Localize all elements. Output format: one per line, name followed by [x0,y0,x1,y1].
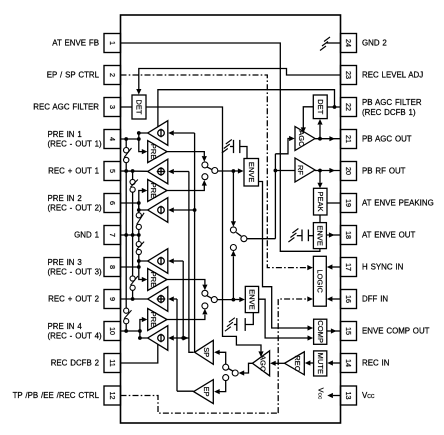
wire node B to ENVE3 input [233,299,239,301]
svg-text:19: 19 [344,199,353,207]
head switch 1 contact bottom [202,174,208,180]
pin 10 box [104,322,121,341]
arrow COMP out to pin 15 [331,328,337,333]
arrow into ENVE3 input [239,297,245,302]
wire PRE2 output to head switch [167,186,204,191]
pin 6 box [104,194,121,213]
ground at C2 [292,229,298,234]
wire head sw1 pole to ENVE input [218,170,238,172]
svg-text:4: 4 [108,137,117,141]
svg-text:2: 2 [108,73,117,77]
wire C1 to ground [230,146,234,148]
rail REC bus x=194.6 [194,133,196,352]
arrow into A1 input [168,130,174,135]
arrow head sw1 from PRE2 [202,180,207,186]
arrow head sw2 from PRE4 [202,309,207,315]
pin 13 box [341,386,357,405]
svg-text:5: 5 [108,169,117,173]
wire RF out to pin 20 [315,170,341,172]
arrow EP/SP bus into REC bus [183,335,189,340]
op-amp A3 (REC-OUT 2, pin 6) [148,198,168,223]
amp AGC (record) [252,351,269,376]
wire EP output to bus [177,390,194,392]
arrow into SP input [214,350,220,355]
rail ground x=126.2 lower [125,324,127,331]
wire pin 23 REC LEVEL ADJ to DET [139,69,341,90]
wire A1 apex riser to PRE1 input [139,133,148,152]
junction pin8 row [137,265,141,269]
arrow pin 14 into MUTE [327,360,333,365]
arrow into ENVE1 input [238,168,244,173]
EP/SP switch contact bottom [223,375,229,381]
arrow into A2 input [168,169,174,174]
switch blade pin8-pin9 [131,276,138,285]
wire pin 22 node to DET right [327,106,334,108]
switch circles pin6-gnd [136,213,141,218]
svg-text:ENVE: ENVE [248,289,257,310]
rail node-B up to PB switch [232,256,234,299]
wire pin 3 REC AGC FILTER to DET [121,106,133,108]
op-amp A1 (REC-OUT 1, pin 4) [148,121,168,146]
wire pin 17 to LOGIC [332,266,341,268]
capacitor C1 plates [239,140,241,153]
arrow MUTE into REC amp [305,360,311,365]
IC outline [121,15,341,423]
switch blade gnd-pin8 [137,242,144,250]
svg-text:AT ENVE FB: AT ENVE FB [52,39,99,48]
junction pin22 node [333,105,337,109]
svg-text:PB AGC FILTER: PB AGC FILTER [362,98,422,107]
wire pin 12 TP/PB/EE/REC CTRL [121,396,279,414]
pin 23 box [341,66,357,85]
junction PB rail / RF [274,169,278,173]
switch circles pin9-pin10 [124,308,129,313]
pin 7 box [104,226,121,245]
arrow into A6 input [168,335,174,340]
wire pin 8 row [121,266,139,268]
wire pin 12 ctrl riser to LOGIC lower [278,299,307,413]
switch blade pin9-pin10 [124,310,131,319]
svg-text:PRE: PRE [149,144,158,160]
switch circles gnd-pin8 [136,242,141,247]
svg-text:H SYNC IN: H SYNC IN [362,263,404,272]
rail PB signal x=275.4 [274,154,276,239]
svg-text:PB AGC OUT: PB AGC OUT [362,135,412,144]
capacitor C2 plates [301,230,303,242]
svg-text:ENVE: ENVE [316,225,325,246]
head switch 2 contact top [202,290,208,296]
svg-text:REC + OUT 2: REC + OUT 2 [48,295,99,304]
svg-text:(REC DCFB 1): (REC DCFB 1) [362,108,416,117]
wire C3 to ground [234,324,237,326]
rail ground x=126.2 upper [125,139,127,148]
junction pin10 row b [138,329,142,333]
arrow into DET top [136,89,141,95]
wire DET ctl to AGC top [303,107,313,128]
pin 9 box [104,290,121,309]
switch circles pin4-pin5 [124,148,129,153]
svg-text:(REC - OUT 2): (REC - OUT 2) [48,204,102,213]
wire pin 16 to LOGIC [332,298,341,300]
amp REC [285,352,305,375]
junction RF out [318,169,322,173]
svg-text:GND 2: GND 2 [362,39,387,48]
wire AGC out to pin 21 [315,138,341,140]
svg-text:PRE IN 3: PRE IN 3 [48,258,83,267]
svg-text:VCC: VCC [362,391,375,400]
pin 17 box [341,258,357,277]
pin 2 box [104,66,121,85]
svg-text:17: 17 [344,263,353,271]
block LOGIC [313,256,326,306]
amp EP [194,380,214,404]
svg-text:24: 24 [344,39,353,47]
wire RF out riser to PEAK [319,171,321,183]
wire pin 22 node to DET / feedback line [158,90,341,127]
pin 8 box [104,258,121,277]
wire SP input [220,352,226,364]
rail x=132.6 seg3 [132,290,134,299]
junction gnd row c [137,233,141,237]
arrow into PEAK top [317,183,322,189]
block ENVE (rec envelope B) [245,286,258,312]
wire COMP out to pin 15 [327,330,341,332]
switch circles pin8-pin9 [130,276,135,281]
preamp PRE 1 [148,141,167,163]
detector block DET (pb agc) [313,95,327,119]
switch circles pin5-pin6 [130,179,135,184]
junction pin5 row a [124,169,128,173]
block ENVE (AT envelope) [313,223,326,249]
wire REC amp to AGC2 [276,362,285,364]
svg-text:RF: RF [296,165,305,175]
arrow ctrl into LOGIC lower [307,296,313,301]
svg-text:7: 7 [108,233,117,237]
junction A4 apex [137,259,141,263]
wire A6 input row [174,337,189,339]
wire PB rail to AGC input [275,139,289,154]
wire PRE1 output to head switch [167,152,204,157]
wire ENVE1 top to capacitor [240,147,247,159]
arrow AGC riser into DET bottom [317,119,322,125]
arrow into PRE4 input [142,317,148,322]
svg-text:3: 3 [108,105,117,109]
amp RF [295,158,315,182]
wire pin 11 REC DCFB 2 to A6 lower edge [121,344,158,363]
pin 11 box [104,354,121,373]
svg-text:22: 22 [344,103,353,111]
rail x=138.8 seg to gnd row [138,230,140,236]
rail x=138.8 seg gnd-pin8 [138,235,140,242]
arrow into PRE2 input [142,188,148,193]
svg-text:MUTE: MUTE [316,353,325,374]
rail node-A down to PB switch [232,171,234,221]
svg-text:DET: DET [316,99,325,114]
svg-text:PRE: PRE [149,183,158,199]
svg-text:10: 10 [108,327,117,335]
wire MUTE to REC amp [310,362,314,364]
wire C2 to ground [297,235,302,237]
wire AGC out riser to DET [319,125,321,139]
EP/SP switch contact top [223,364,229,370]
wire PEAK to ENVE2 [319,215,321,223]
wire pin 9 row to A5 apex [121,298,148,300]
svg-text:TP /PB /EE /REC CTRL: TP /PB /EE /REC CTRL [13,391,100,400]
svg-text:9: 9 [108,297,117,301]
arrow into PRE1 input [142,149,148,154]
svg-text:11: 11 [108,359,117,366]
head switch 1 pole [212,168,218,174]
arrow head sw1 from PRE1 [202,156,207,162]
svg-text:20: 20 [344,167,353,175]
wire A1 input [174,132,195,134]
wire A4 input [174,260,183,262]
pin 12 box [104,386,121,405]
pin 3 box [104,98,121,117]
wire A6 apex riser to PRE4 input [140,320,148,339]
svg-text:DET: DET [135,99,144,114]
op-amp A6 (REC-OUT 4, pin 10) [148,326,168,351]
svg-text:PRE IN 2: PRE IN 2 [48,194,82,203]
arrow PB sw from node A [231,221,236,227]
preamp PRE 3 [148,269,167,291]
svg-text:AGC: AGC [297,130,306,147]
pin 14 box [341,354,357,373]
head switch 1 contact top [202,162,208,168]
svg-text:ENVE COMP OUT: ENVE COMP OUT [362,327,430,336]
PB switch contact top [230,227,236,233]
wire pin 5 row to A2 apex [121,170,148,172]
arrow Vcc [327,393,333,398]
svg-text:REC: REC [293,355,302,371]
svg-text:SP: SP [202,347,211,357]
arrow ctrl into LOGIC upper [307,265,313,270]
arrow into COMP upper [308,325,314,330]
switch blade EP/SP [228,369,232,372]
amp AGC (playback) [295,127,315,151]
preamp PRE 4 [148,309,167,331]
wire pin 4 row [121,138,139,140]
pin 15 box [341,322,357,341]
block ENVE (rec envelope A) [244,159,259,187]
svg-text:GND 1: GND 1 [74,231,99,240]
junction gnd row b [131,233,135,237]
svg-text:23: 23 [344,71,353,79]
svg-text:PEAK: PEAK [316,192,325,212]
arrow into PRE3 input [142,277,148,282]
PINS-LEFT [104,34,121,406]
wire ENVE1 output rail to COMP upper [259,182,308,329]
svg-text:15: 15 [344,327,353,335]
rail x=138.8 seg below switch [138,255,140,261]
junction REC bus A3 [193,208,197,212]
wire Vcc [333,395,341,397]
pin 21 box [341,130,357,149]
arrow ENVE2 out to pin 18 [329,232,335,237]
wire pin 1 AT ENVE FB to ENVE bottom [121,43,320,251]
svg-text:14: 14 [344,359,353,367]
svg-text:13: 13 [344,392,353,400]
arrow AGC2 out into EP/SP switch [239,370,245,375]
junction pin5 row b [131,169,135,173]
preamp PRE 2 [148,180,167,202]
rail x=132.6 seg1 [132,171,134,179]
wire DET to agc control rail [146,107,261,351]
junction pin4 row b [137,137,141,141]
pin 19 box [341,194,357,213]
ground at C3 [229,318,235,323]
junction pin9 row [131,297,135,301]
svg-text:PRE: PRE [149,272,158,288]
wire pin 6 row [121,202,139,204]
junction A6 apex [138,336,142,340]
PINS-RIGHT [341,34,357,406]
block MUTE [314,351,327,376]
pin 4 box [104,130,121,149]
arrow DET ctl into AGC top [301,127,306,133]
svg-text:PRE IN 1: PRE IN 1 [48,130,82,139]
pin 5 box [104,162,121,181]
wire ENVE2 out to pin 18 [326,234,340,236]
arrow into A4 input [168,258,174,263]
junction A1 apex [137,131,141,135]
svg-text:1: 1 [108,41,117,45]
rail REC bus x=188.9 to SP apex [189,172,194,353]
svg-text:ENVE: ENVE [247,162,256,183]
svg-text:REC IN: REC IN [362,359,390,368]
svg-text:EP: EP [202,387,211,397]
arrow ctl into AGC2 top [258,351,263,357]
junction node A [232,169,236,173]
wire pin 2 EP/SP CTRL to LOGIC upper [121,75,308,268]
svg-text:18: 18 [344,231,353,239]
wire PEAK to pin 19 [327,202,341,204]
arrow pin 16 into LOGIC [327,296,333,301]
wire PB rail to RF input [275,170,295,172]
svg-text:EP / SP CTRL: EP / SP CTRL [47,71,100,80]
svg-text:(REC - OUT 4): (REC - OUT 4) [48,332,102,341]
svg-text:PRE IN 4: PRE IN 4 [48,322,83,331]
wire AGC2 out to EP/SP switch [242,363,253,373]
svg-text:LOGIC: LOGIC [316,269,325,293]
pin 22 box [341,98,357,117]
arrow into A5 input [168,296,174,301]
svg-text:(REC - OUT 3): (REC - OUT 3) [48,268,102,277]
svg-text:16: 16 [344,295,353,303]
switch blade PB sw [236,232,241,236]
wire pin 7 GND row [121,234,139,236]
op-amp A5 (REC+OUT 2, pin 9) [148,287,168,312]
svg-text:8: 8 [108,265,117,269]
switch blade pin6-gnd [137,213,144,225]
svg-text:6: 6 [108,201,117,205]
capacitor C3 plates [244,318,246,331]
rail x=132.6 seg2 [132,192,134,276]
head switch 2 pole [211,297,217,303]
wire pin 10 row [121,330,140,332]
arrow REC into AGC2 [270,361,276,366]
arrow into A3 input [168,207,174,212]
svg-text:AGC: AGC [259,355,268,372]
wire PRE4 output to head switch 2 [167,315,205,320]
junction gnd row a [124,233,128,237]
arrow AGC out to pin 21 [329,136,335,141]
EP/SP switch pole [232,370,238,376]
wire PB sw pole to PB rail [247,238,275,240]
svg-text:REC AGC FILTER: REC AGC FILTER [33,103,99,112]
arrow PB sw from node B [231,251,236,257]
svg-text:VCC: VCC [317,388,326,400]
svg-text:DFF IN: DFF IN [362,295,388,304]
rail ground x=126.2 mid [125,163,127,308]
wire ENVE3 output to COMP lower [259,299,308,338]
wire PRE3 output to head switch 2 [167,280,205,285]
wire pin 24 GND 2 [327,42,341,44]
block COMP [314,319,327,344]
svg-text:12: 12 [108,392,117,400]
svg-text:REC LEVEL ADJ: REC LEVEL ADJ [362,71,423,80]
op-amp A2 (REC+OUT 1, pin 5) [148,159,168,184]
rail REC bus x=183.2 [182,261,184,338]
wire A4 apex riser to PRE3 input [139,261,148,280]
detector block DET (rec agc) [132,95,146,119]
junction pin4 row a [124,137,128,141]
wire C2 to ENVE2 [308,235,313,237]
arrow head sw2 from PRE3 [202,285,207,291]
wire ENVE3 bottom to capacitor [245,313,253,325]
svg-text:21: 21 [344,135,353,143]
junction AGC out [318,137,322,141]
wire head sw2 pole to node-B [217,299,233,301]
pin 16 box [341,290,357,309]
pin 20 box [341,162,357,181]
junction REC bus A6 [181,336,185,340]
arrow into AGC (pb) input [289,136,295,141]
rail EP bus x=177 [176,299,178,391]
ground at pin 24 [324,37,330,42]
junction A3 apex [137,208,141,212]
wire A5 input [174,298,177,300]
svg-text:(REC - OUT 1): (REC - OUT 1) [48,140,102,149]
PB switch pole [241,236,247,242]
amp SP [195,340,214,364]
svg-text:AT ENVE PEAKING: AT ENVE PEAKING [362,199,434,208]
block PEAK [314,188,328,215]
wire A3 input [174,209,195,211]
wire A2 input [174,171,189,173]
svg-text:COMP: COMP [316,320,325,343]
op-amp A4 (REC-OUT 3, pin 8) [148,249,168,274]
svg-text:AT ENVE OUT: AT ENVE OUT [362,231,415,240]
arrow into COMP lower [308,335,314,340]
junction node B [232,298,236,302]
pin 18 box [341,226,357,245]
pin 24 box [341,34,357,53]
junction pin10 row a [124,329,128,333]
svg-text:PB RF OUT: PB RF OUT [362,167,406,176]
pin 1 box [104,34,121,53]
ground at C1 [226,140,232,145]
wire A3 apex riser to PRE2 input [139,191,148,211]
PB switch contact bottom [230,245,236,251]
svg-text:REC DCFB 2: REC DCFB 2 [51,359,99,368]
head switch 2 contact bottom [202,303,208,309]
switch blade pin5-pin6 [131,180,138,188]
wire pin 14 to MUTE [333,362,341,364]
wire EP input [220,381,226,392]
switch blade head sw1 [207,167,212,170]
switch blade head sw2 [207,296,212,299]
